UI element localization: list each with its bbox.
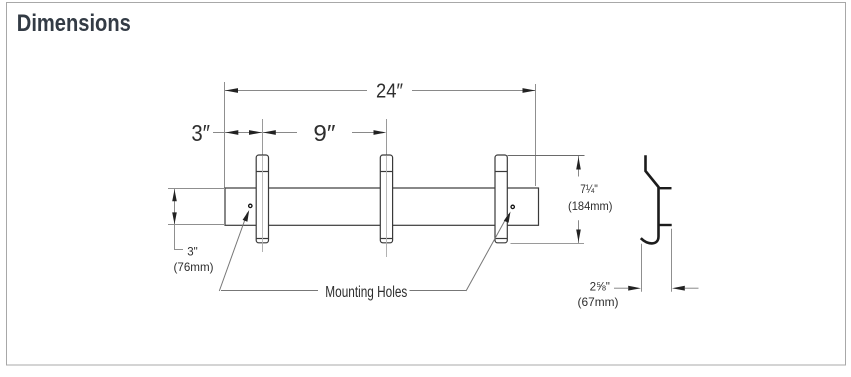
centerline hook 1 (262, 119, 264, 252)
svg-text:(184mm): (184mm) (568, 199, 613, 213)
side profile of hook strip (641, 155, 672, 243)
dimension 3 inch (76mm) height (168, 189, 225, 275)
extension line 24in right (535, 84, 537, 186)
centerline hook 2 inner (386, 156, 388, 257)
svg-text:9″: 9″ (313, 120, 335, 146)
dimension 9 inch spacing (263, 120, 386, 146)
bracket backplate front view (225, 188, 539, 225)
hook 1 (256, 155, 268, 243)
svg-text:3″: 3″ (191, 120, 210, 146)
hook 2 (380, 155, 392, 243)
svg-text:Dimensions: Dimensions (17, 10, 131, 37)
mounting hole right (511, 205, 514, 208)
dimension 2.625 inch (67mm) depth (578, 229, 699, 309)
centerline hook 2 (386, 119, 388, 257)
leader left mounting hole (219, 210, 318, 291)
leader right mounting hole (410, 212, 511, 292)
svg-text:Mounting Holes: Mounting Holes (325, 284, 407, 301)
svg-text:(76mm): (76mm) (174, 260, 214, 274)
svg-text:7¼": 7¼" (580, 182, 598, 196)
svg-text:(67mm): (67mm) (578, 295, 619, 309)
extension line 24in left (224, 82, 226, 188)
svg-text:2⅝": 2⅝" (590, 279, 610, 293)
svg-text:3": 3" (187, 245, 198, 259)
centerline hook 1 inner (262, 156, 264, 252)
dimension 7.25 inch (184mm) (508, 156, 613, 244)
svg-text:24″: 24″ (376, 81, 403, 103)
hook 3 (495, 155, 507, 243)
label Mounting Holes (325, 284, 407, 301)
dimension 24 inch (225, 81, 536, 103)
title Dimensions (17, 10, 131, 37)
dimension 3 inch spacing (191, 120, 262, 146)
mounting hole left (249, 204, 252, 207)
